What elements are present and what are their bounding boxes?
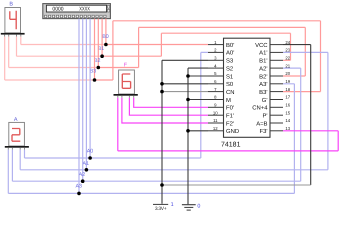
svg-text:B3: B3 xyxy=(90,69,97,75)
svg-text:XXXX: XXXX xyxy=(79,6,90,12)
svg-text:15: 15 xyxy=(285,110,290,115)
svg-text:A1: A1 xyxy=(83,161,90,167)
svg-text:B3': B3' xyxy=(259,89,267,96)
svg-text:0000: 0000 xyxy=(52,6,63,12)
word generator XWG1 xyxy=(43,4,111,19)
wire net B2: display B / generator to U1 pin20 xyxy=(9,19,306,76)
wire net F0: display F to U1 pin9 xyxy=(134,98,208,108)
svg-text:B1': B1' xyxy=(259,58,267,65)
svg-text:A1': A1' xyxy=(259,50,267,57)
ground (net 0) xyxy=(182,204,201,211)
svg-text:CN: CN xyxy=(226,89,235,96)
wire net A1: display A / generator to U1 pin23 xyxy=(20,19,328,170)
svg-text:8: 8 xyxy=(214,95,217,100)
svg-text:GND: GND xyxy=(226,128,239,135)
svg-text:6: 6 xyxy=(214,79,217,84)
node M junction xyxy=(186,98,190,102)
wire net A0: display A / generator to U1 pin2 xyxy=(25,19,209,158)
svg-text:CN+4: CN+4 xyxy=(252,105,268,112)
indicator display F (digit 6) xyxy=(114,63,138,98)
node S1 junction xyxy=(186,74,190,78)
node CN junction xyxy=(160,90,164,94)
svg-text:M: M xyxy=(226,97,231,104)
svg-text:5: 5 xyxy=(214,71,217,76)
svg-text:10: 10 xyxy=(213,110,218,115)
node A3 junction xyxy=(75,184,82,196)
svg-text:17: 17 xyxy=(285,95,290,100)
wire CN (gray) xyxy=(162,91,208,93)
wire net B1: display B / generator to U1 pin22 xyxy=(17,19,291,61)
node A2 junction xyxy=(79,172,86,183)
node B3 junction xyxy=(90,69,97,82)
svg-text:A0': A0' xyxy=(226,50,234,57)
wire net F2: display F to U1 pin11 xyxy=(122,98,208,123)
svg-text:A=B: A=B xyxy=(256,120,267,127)
svg-text:S2: S2 xyxy=(226,65,233,72)
node B1 junction xyxy=(98,46,105,58)
svg-text:B0': B0' xyxy=(226,42,234,49)
svg-text:A2': A2' xyxy=(259,65,267,72)
node VCC junction xyxy=(160,183,164,187)
svg-text:S0: S0 xyxy=(226,81,234,88)
svg-text:4: 4 xyxy=(214,63,217,68)
svg-text:74181: 74181 xyxy=(221,141,241,148)
svg-text:B: B xyxy=(9,1,13,7)
svg-text:B2': B2' xyxy=(259,73,267,80)
svg-text:1: 1 xyxy=(214,40,217,45)
node A0 junction xyxy=(87,148,94,159)
indicator display A (digit 2) xyxy=(5,117,29,150)
wire net F1: display F to U1 pin10 xyxy=(129,98,208,116)
node B0 junction xyxy=(102,34,109,47)
IC U1 74181 xyxy=(208,38,291,148)
wire net GND: ground to U1 S2,S1,M,GND xyxy=(188,68,208,204)
svg-text:B0: B0 xyxy=(102,34,109,40)
svg-text:G': G' xyxy=(262,97,268,104)
node A1 junction xyxy=(83,161,90,172)
svg-text:3.3V+: 3.3V+ xyxy=(155,206,167,212)
wire net A3: display A / generator to U1 pin19 xyxy=(8,19,294,194)
node B2 junction xyxy=(94,58,101,69)
wire net A2: display A / generator to U1 pin21 xyxy=(12,19,300,182)
svg-text:F1': F1' xyxy=(226,113,234,120)
svg-text:A3': A3' xyxy=(259,81,267,88)
svg-text:VCC: VCC xyxy=(255,42,268,49)
wire net F3: display F to U1 pin13 xyxy=(118,98,338,151)
power source V1 3.3V (net 1) xyxy=(153,202,174,212)
svg-text:A2: A2 xyxy=(79,172,86,178)
indicator display B (digit 4) xyxy=(1,1,25,36)
svg-text:P': P' xyxy=(262,113,267,120)
svg-text:S1: S1 xyxy=(226,73,233,80)
svg-text:14: 14 xyxy=(285,118,290,123)
svg-text:0: 0 xyxy=(197,204,200,210)
wire net B0: generator/display B to U1 pin1 xyxy=(21,19,208,45)
svg-text:11: 11 xyxy=(213,118,218,123)
wire net B3: display B / generator to U1 pin18 xyxy=(5,19,321,92)
svg-text:A3: A3 xyxy=(75,184,82,190)
svg-text:1: 1 xyxy=(171,202,174,208)
wire VCC return (gray) xyxy=(162,184,311,186)
svg-text:S3: S3 xyxy=(226,58,234,65)
node GND junction xyxy=(186,129,190,133)
svg-text:7: 7 xyxy=(214,87,217,92)
svg-text:9: 9 xyxy=(214,103,217,108)
svg-text:16: 16 xyxy=(285,103,290,108)
svg-text:2: 2 xyxy=(214,48,217,53)
svg-text:12: 12 xyxy=(213,126,218,131)
node S0 junction xyxy=(160,82,164,86)
svg-text:A0: A0 xyxy=(87,148,94,154)
wire net VCC: source V1 to U1 S3,S0,CN,pin24 xyxy=(162,45,311,204)
svg-text:F0': F0' xyxy=(226,105,234,112)
svg-text:F2': F2' xyxy=(226,120,234,127)
svg-text:3: 3 xyxy=(214,56,217,61)
svg-text:F3': F3' xyxy=(260,128,268,135)
